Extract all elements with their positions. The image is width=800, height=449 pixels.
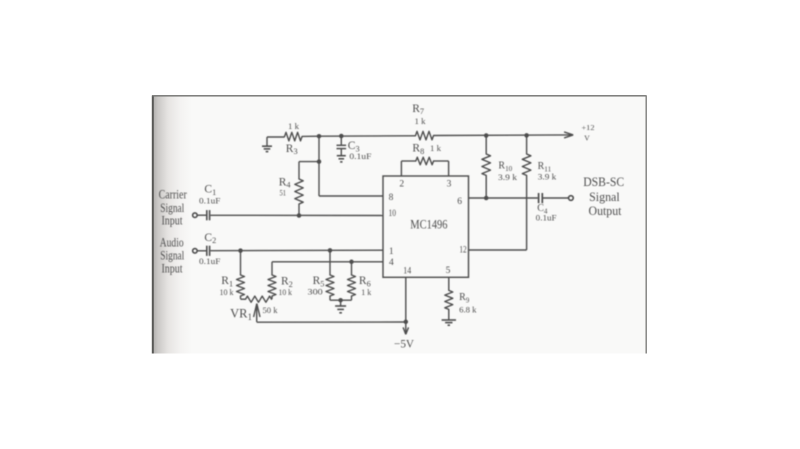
svg-text:2: 2 (399, 179, 404, 189)
svg-text:0.1uF: 0.1uF (199, 256, 221, 266)
svg-text:Carrier: Carrier (159, 187, 188, 201)
svg-text:Input: Input (161, 261, 183, 275)
svg-text:Audio: Audio (160, 236, 184, 250)
svg-text:Output: Output (589, 204, 622, 218)
svg-text:300: 300 (308, 287, 323, 297)
svg-text:8: 8 (389, 193, 394, 203)
svg-text:12: 12 (459, 245, 466, 255)
svg-text:14: 14 (403, 267, 411, 277)
svg-text:DSB-SC: DSB-SC (583, 175, 624, 189)
svg-text:0.1uF: 0.1uF (349, 151, 371, 161)
svg-text:Signal: Signal (589, 190, 620, 204)
svg-text:51: 51 (280, 187, 287, 197)
svg-text:10 k: 10 k (220, 287, 235, 297)
svg-text:3.9 k: 3.9 k (538, 172, 557, 182)
svg-text:0.1uF: 0.1uF (536, 213, 557, 223)
svg-text:1: 1 (389, 247, 394, 257)
svg-text:MC1496: MC1496 (410, 218, 447, 232)
svg-text:6.8 k: 6.8 k (459, 304, 477, 314)
svg-text:4: 4 (389, 258, 394, 268)
svg-text:V: V (584, 134, 590, 143)
svg-text:1 k: 1 k (361, 287, 372, 297)
svg-text:Input: Input (161, 214, 183, 228)
svg-text:3: 3 (447, 180, 452, 190)
svg-text:50 k: 50 k (263, 305, 279, 315)
svg-text:10: 10 (388, 209, 396, 219)
svg-text:6: 6 (457, 197, 462, 207)
svg-text:1 k: 1 k (430, 143, 442, 153)
svg-text:5: 5 (446, 266, 451, 276)
svg-text:3.9 k: 3.9 k (498, 172, 518, 182)
svg-text:1 k: 1 k (415, 116, 427, 126)
svg-text:+12: +12 (582, 123, 595, 132)
svg-text:10 k: 10 k (279, 287, 293, 297)
svg-text:−5V: −5V (394, 339, 415, 351)
svg-text:1 k: 1 k (288, 121, 300, 131)
svg-text:0.1uF: 0.1uF (199, 195, 221, 205)
